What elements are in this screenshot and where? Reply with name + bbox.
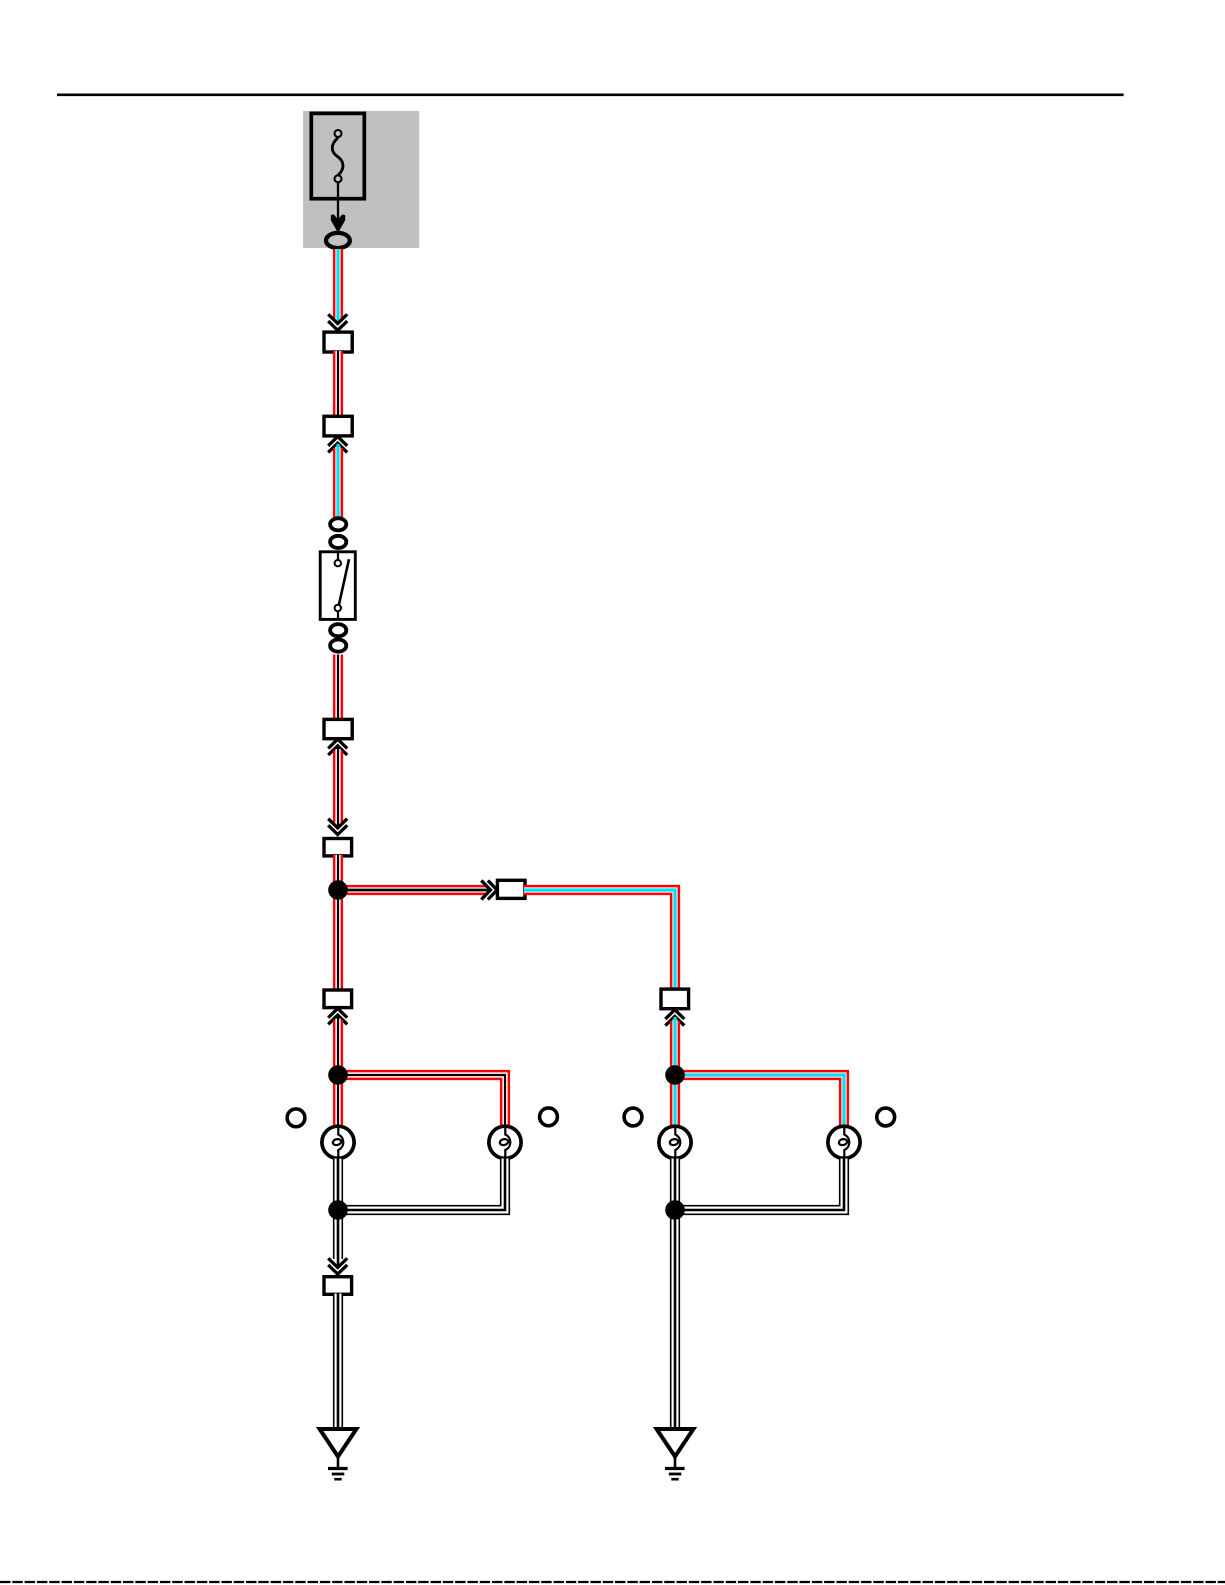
connector 8: [324, 1277, 352, 1295]
wire M (R-B) connector7 to splice 2: [333, 1016, 343, 1076]
footer perforation line: [0, 1581, 1225, 1583]
power feed arrow: [331, 215, 345, 232]
chevron pair down above connector 8: [328, 1258, 347, 1274]
splice 1: [328, 880, 348, 900]
switch contact top: [335, 560, 341, 566]
wire J (R-L) splice3 to bulb 3: [670, 1075, 680, 1130]
switch contact stub top: [337, 552, 339, 560]
wire K (R-L) splice3 jog to bulb 4: [675, 1075, 844, 1130]
wire N (R-B) splice2 to bulb 1: [333, 1075, 343, 1130]
connector 3: [324, 719, 352, 738]
wire C (R-L) connector2 to switch: [333, 444, 343, 517]
wire R (B) splice4 to connector 8: [333, 1210, 343, 1267]
wire L (R-B) splice1 down to connector 7: [333, 890, 343, 991]
bulb 4: [828, 1125, 860, 1160]
terminal ring bulb1: [287, 1109, 305, 1127]
terminal ring bulb4: [877, 1108, 895, 1126]
switch blade: [339, 559, 349, 605]
connector 4: [324, 839, 352, 856]
chevron pair right before connector 5: [481, 881, 497, 900]
splice 2: [328, 1065, 348, 1085]
chevron pair up below connector 3: [328, 739, 347, 755]
connector 1: [324, 332, 352, 352]
lead from fuse: [337, 182, 339, 221]
wire S (B) connector8 to ground 1: [333, 1294, 343, 1431]
bulb 3: [659, 1125, 691, 1160]
switch terminal circle lower 1: [330, 624, 346, 636]
wire E (R-B) connector3 to connector4: [333, 747, 343, 828]
wire D (R-B) switch to connector 3: [333, 655, 343, 721]
chevron pair up below connector 6: [665, 1010, 684, 1026]
connector 5: [497, 880, 525, 898]
wire Q (B) bulb2 to splice 4: [345, 1159, 505, 1211]
terminal ring bulb3: [624, 1108, 642, 1126]
fusible link element: [332, 130, 343, 182]
connector terminal oval: [326, 233, 350, 248]
wire O (R-B) splice2 jog to bulb 2: [338, 1075, 505, 1130]
ground 1: [320, 1429, 357, 1479]
switch body: [320, 552, 355, 620]
wire F (R-B) connector4 to splice 1: [333, 855, 343, 890]
junction block (shaded area): [303, 111, 419, 248]
wire I (R-L) connector6 to splice 3: [670, 1017, 680, 1075]
splice 5: [665, 1200, 685, 1220]
splice 4: [328, 1200, 348, 1220]
fusible link AM2 (fuse box): [311, 113, 364, 198]
chevron pair up below connector 7: [328, 1009, 347, 1025]
switch contact stub bottom: [337, 611, 339, 619]
wire T (B) bulb3 to ground 2: [670, 1159, 680, 1431]
wire U (B) bulb4 to splice 5: [682, 1159, 844, 1211]
connector 6: [661, 989, 689, 1009]
wire A (R-L) fuse to connector: [333, 249, 343, 322]
connector 2: [324, 416, 352, 436]
switch terminal circle upper 1: [330, 518, 346, 530]
switch terminal circle lower 2: [330, 640, 346, 652]
wire G (R-B) splice1 to right branch connector 5: [338, 885, 490, 895]
bulb 2: [489, 1125, 521, 1160]
ground 2: [657, 1429, 694, 1479]
chevron pair down above connector 1: [328, 314, 347, 330]
header rule line: [57, 94, 1124, 97]
wire P (B) bulb1 to splice 4: [333, 1159, 343, 1211]
bulb 1: [322, 1125, 354, 1160]
splice 3: [665, 1065, 685, 1085]
wire H (R-L) connector5 to right branch corner down to connector 6: [524, 890, 675, 990]
chevron pair down above connector 4: [328, 819, 347, 835]
connector 7: [324, 990, 352, 1008]
switch terminal circle upper 2: [330, 536, 346, 548]
switch contact bottom: [335, 605, 341, 611]
terminal ring bulb2: [540, 1108, 558, 1126]
wire B (R-B) connector1 to connector2: [333, 351, 343, 417]
chevron pair up below connector 2: [328, 437, 347, 453]
